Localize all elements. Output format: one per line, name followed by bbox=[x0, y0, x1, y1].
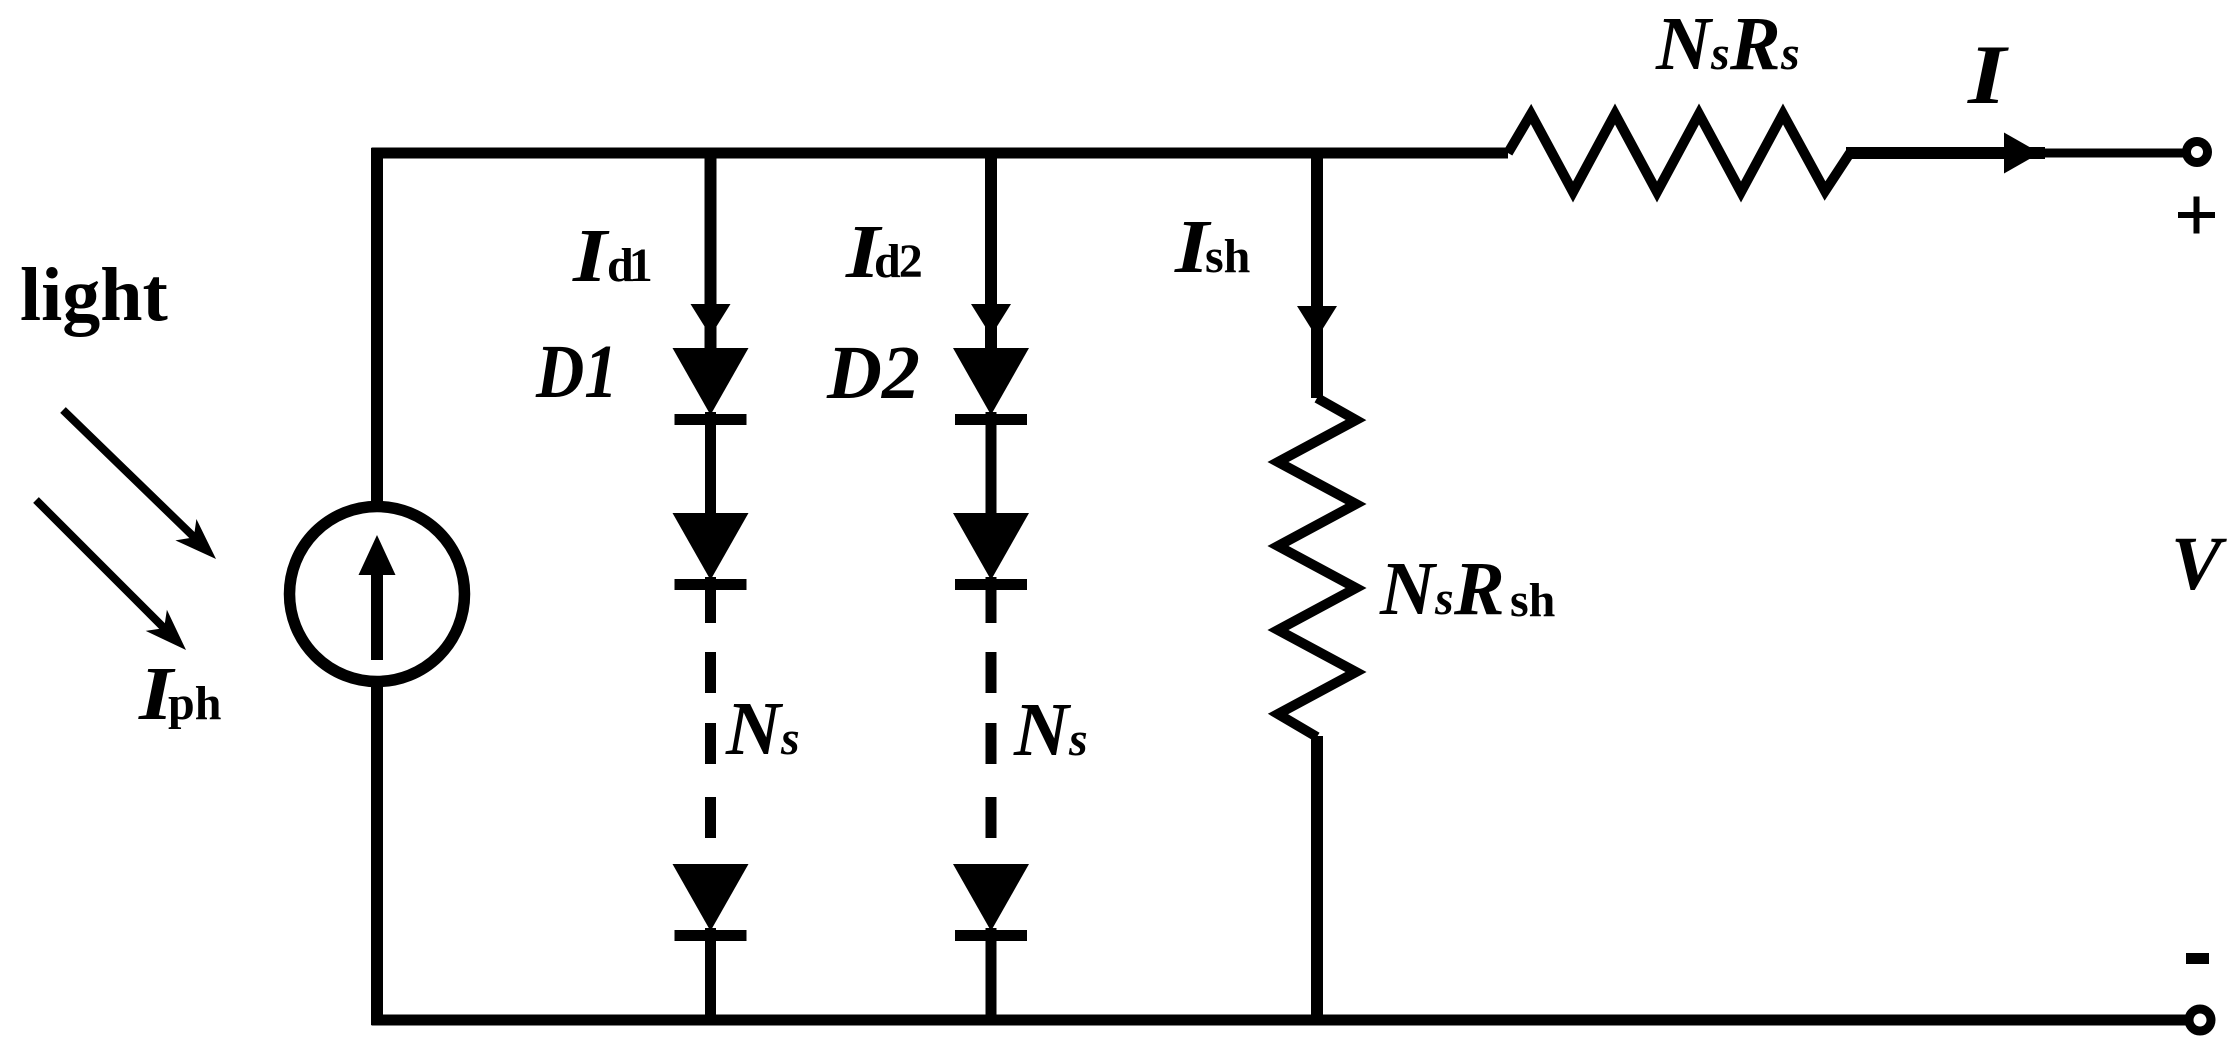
svg-text:s: s bbox=[1710, 27, 1730, 80]
svg-text:D2: D2 bbox=[826, 331, 920, 415]
svg-text:light: light bbox=[20, 253, 168, 337]
svg-text:d1: d1 bbox=[607, 239, 653, 292]
svg-text:N: N bbox=[1655, 2, 1714, 86]
svg-text:s: s bbox=[1780, 27, 1800, 80]
svg-text:N: N bbox=[725, 687, 784, 771]
svg-text:N: N bbox=[1379, 547, 1438, 631]
svg-text:D1: D1 bbox=[535, 330, 618, 414]
svg-text:N: N bbox=[1013, 688, 1072, 772]
svg-text:s: s bbox=[780, 712, 800, 765]
svg-text:s: s bbox=[1434, 572, 1454, 625]
svg-text:R: R bbox=[1453, 547, 1505, 631]
svg-text:I: I bbox=[1967, 27, 2010, 122]
svg-text:ph: ph bbox=[168, 677, 221, 730]
svg-text:d2: d2 bbox=[874, 235, 923, 288]
svg-text:sh: sh bbox=[1510, 574, 1555, 627]
svg-text:sh: sh bbox=[1205, 230, 1250, 283]
svg-text:I: I bbox=[572, 213, 610, 297]
svg-text:V: V bbox=[2171, 522, 2227, 606]
svg-text:R: R bbox=[1729, 2, 1781, 86]
svg-text:s: s bbox=[1068, 713, 1088, 766]
